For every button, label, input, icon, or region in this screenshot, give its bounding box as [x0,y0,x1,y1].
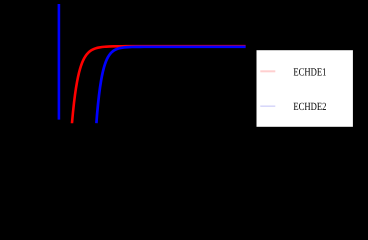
blue curve ECHDE2 [96,47,245,123]
svg-text:ECHDE1: ECHDE1 [293,67,326,79]
legend sample line ECHDE2 [260,105,275,107]
red curve ECHDE1 [72,46,246,123]
blue spike line [58,4,61,120]
legend box [256,50,353,128]
legend sample line ECHDE1 [260,70,275,72]
svg-text:ECHDE2: ECHDE2 [293,101,326,113]
